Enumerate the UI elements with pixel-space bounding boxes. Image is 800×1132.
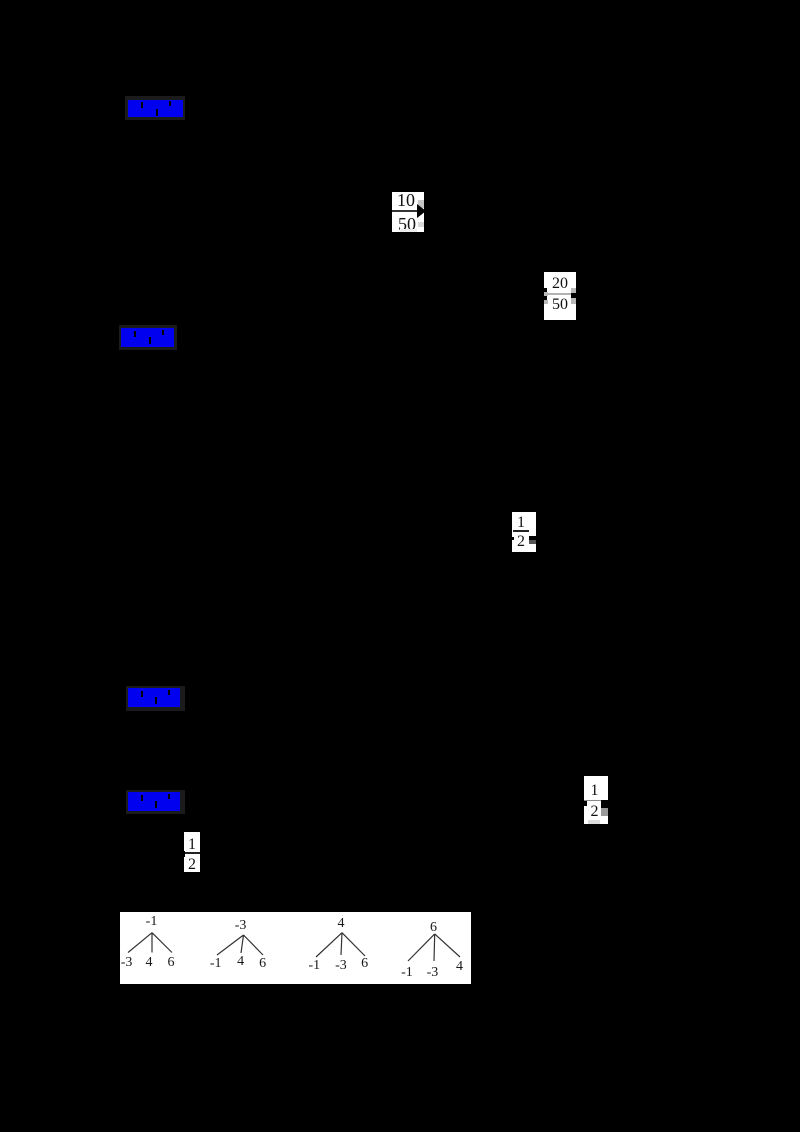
svg-text:-3: -3 — [235, 918, 247, 933]
svg-text:-1: -1 — [146, 914, 158, 929]
svg-text:-3: -3 — [335, 958, 347, 973]
svg-text:-1: -1 — [401, 965, 413, 980]
svg-text:-1: -1 — [210, 956, 222, 971]
svg-text:-1: -1 — [308, 958, 320, 973]
svg-text:-3: -3 — [427, 965, 439, 980]
svg-text:6: 6 — [361, 956, 368, 971]
svg-text:6: 6 — [168, 955, 175, 970]
svg-text:6: 6 — [259, 956, 266, 971]
svg-text:4: 4 — [146, 955, 153, 970]
svg-text:-3: -3 — [121, 955, 133, 970]
svg-text:6: 6 — [430, 920, 437, 935]
svg-text:4: 4 — [456, 959, 463, 974]
svg-text:4: 4 — [237, 954, 244, 969]
svg-text:4: 4 — [338, 916, 345, 931]
